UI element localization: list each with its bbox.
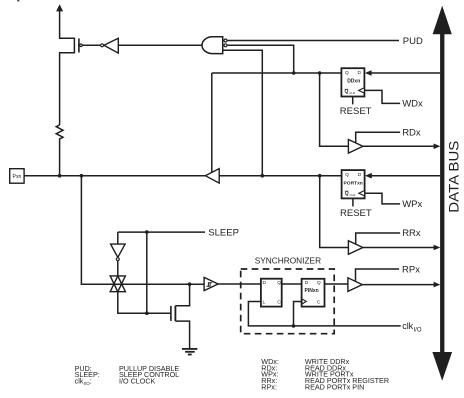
svg-text:Q: Q xyxy=(345,191,349,197)
svg-text:D: D xyxy=(358,70,362,76)
svg-text:SLEEP: SLEEP xyxy=(208,228,239,239)
svg-text:I/O CLOCK: I/O CLOCK xyxy=(119,377,156,386)
svg-text::: : xyxy=(90,377,92,386)
svg-text:CLR: CLR xyxy=(349,91,355,95)
svg-text:RESET: RESET xyxy=(340,106,372,117)
svg-text:RPx:: RPx: xyxy=(261,382,277,391)
svg-text:Q: Q xyxy=(277,280,281,286)
svg-text:D: D xyxy=(358,172,362,178)
svg-text:Q: Q xyxy=(345,70,349,76)
svg-text:clk: clk xyxy=(75,377,84,386)
svg-text:Q: Q xyxy=(317,280,321,286)
svg-text:WPx: WPx xyxy=(402,199,422,210)
svg-text:Q: Q xyxy=(345,172,349,178)
svg-text:RPx: RPx xyxy=(402,264,420,275)
svg-text:Pxn: Pxn xyxy=(13,174,22,180)
svg-text:PINxn: PINxn xyxy=(305,288,319,294)
svg-text:clk: clk xyxy=(402,321,413,331)
svg-text:D: D xyxy=(263,280,267,286)
svg-text:I/O: I/O xyxy=(414,328,422,334)
svg-text:READ PORTx PIN: READ PORTx PIN xyxy=(305,382,364,391)
svg-text:CLR: CLR xyxy=(350,193,356,197)
svg-text:C: C xyxy=(277,300,281,306)
svg-text:DATA BUS: DATA BUS xyxy=(446,141,461,213)
svg-text:PORTxn: PORTxn xyxy=(344,181,363,187)
svg-text:C: C xyxy=(317,300,321,306)
svg-text:Q: Q xyxy=(345,89,349,95)
svg-text:RRx: RRx xyxy=(402,228,421,239)
svg-text:WDx: WDx xyxy=(402,99,423,110)
svg-text:PUD: PUD xyxy=(403,36,423,47)
svg-text:RESET: RESET xyxy=(340,208,372,219)
svg-text:RDx: RDx xyxy=(402,128,421,139)
svg-text:D: D xyxy=(305,280,309,286)
svg-text:DDxn: DDxn xyxy=(347,79,360,85)
svg-text:L: L xyxy=(263,300,266,306)
svg-text:SYNCHRONIZER: SYNCHRONIZER xyxy=(255,256,321,266)
